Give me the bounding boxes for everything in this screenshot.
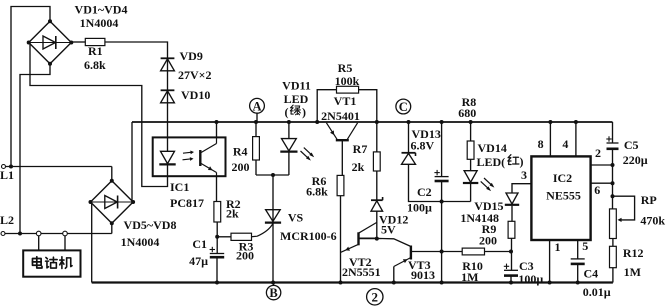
svg-text:VD14: VD14: [478, 141, 507, 155]
svg-text:C: C: [399, 100, 408, 114]
svg-text:VD10: VD10: [181, 88, 210, 102]
svg-text:1N4004: 1N4004: [80, 16, 119, 30]
svg-text:2N5551: 2N5551: [342, 265, 381, 279]
svg-text:VD1~VD4: VD1~VD4: [75, 3, 128, 17]
svg-text:L2: L2: [0, 213, 14, 227]
svg-text:): ): [520, 155, 524, 169]
svg-text:C3: C3: [519, 259, 534, 273]
svg-text:R5: R5: [338, 61, 353, 75]
svg-text:27V×2: 27V×2: [178, 68, 212, 82]
svg-text:9013: 9013: [411, 268, 435, 282]
svg-text:VD11: VD11: [282, 79, 311, 93]
svg-text:2k: 2k: [226, 207, 239, 221]
svg-text:2k: 2k: [352, 160, 365, 174]
svg-text:100k: 100k: [335, 74, 360, 88]
svg-text:6.8V: 6.8V: [411, 139, 435, 153]
svg-text:0.01µ: 0.01µ: [583, 285, 611, 299]
svg-text:220µ: 220µ: [623, 153, 648, 167]
svg-text:1N4004: 1N4004: [121, 235, 160, 249]
svg-text:LED: LED: [284, 92, 309, 106]
svg-text:VD5~VD8: VD5~VD8: [124, 218, 177, 232]
svg-text:6.8k: 6.8k: [84, 58, 106, 72]
svg-text:47µ: 47µ: [189, 254, 208, 268]
svg-text:LED(: LED(: [477, 155, 506, 169]
svg-text:VS: VS: [288, 211, 304, 225]
svg-text:): ): [302, 105, 306, 119]
svg-text:200: 200: [236, 249, 254, 263]
svg-text:1: 1: [555, 240, 561, 254]
svg-text:4: 4: [562, 137, 568, 151]
svg-text:NE555: NE555: [546, 189, 581, 203]
svg-text:200: 200: [232, 160, 250, 174]
svg-text:6.8k: 6.8k: [306, 185, 328, 199]
svg-text:R1: R1: [88, 44, 103, 58]
svg-text:2: 2: [372, 290, 379, 305]
svg-text:680: 680: [458, 106, 476, 120]
svg-text:C5: C5: [624, 138, 639, 152]
svg-text:A: A: [252, 99, 261, 113]
svg-text:(: (: [285, 105, 289, 119]
svg-text:5: 5: [582, 239, 588, 253]
svg-text:C1: C1: [192, 237, 207, 251]
svg-text:470k: 470k: [640, 214, 665, 228]
svg-text:PC817: PC817: [170, 196, 204, 210]
svg-text:2: 2: [595, 146, 601, 160]
svg-text:6: 6: [594, 183, 600, 197]
svg-text:100µ: 100µ: [518, 272, 543, 286]
svg-text:MCR100-6: MCR100-6: [280, 229, 337, 243]
svg-text:RP: RP: [641, 193, 657, 207]
svg-text:C4: C4: [584, 267, 599, 281]
svg-text:L1: L1: [0, 168, 14, 182]
svg-text:200: 200: [479, 234, 497, 248]
svg-text:R7: R7: [353, 142, 368, 156]
svg-text:VT1: VT1: [334, 94, 357, 108]
svg-text:1M: 1M: [461, 270, 478, 284]
svg-text:2N5401: 2N5401: [321, 109, 360, 123]
svg-text:100µ: 100µ: [407, 201, 432, 215]
svg-text:R4: R4: [233, 145, 248, 159]
svg-text:8: 8: [538, 137, 544, 151]
svg-text:VD9: VD9: [180, 49, 203, 63]
svg-text:IC2: IC2: [553, 171, 572, 185]
svg-text:IC1: IC1: [170, 180, 189, 194]
svg-text:5V: 5V: [381, 223, 396, 237]
svg-text:B: B: [269, 286, 277, 300]
svg-text:3: 3: [521, 168, 527, 182]
svg-text:1M: 1M: [624, 265, 641, 279]
svg-text:R12: R12: [623, 246, 644, 260]
svg-text:C2: C2: [417, 185, 432, 199]
